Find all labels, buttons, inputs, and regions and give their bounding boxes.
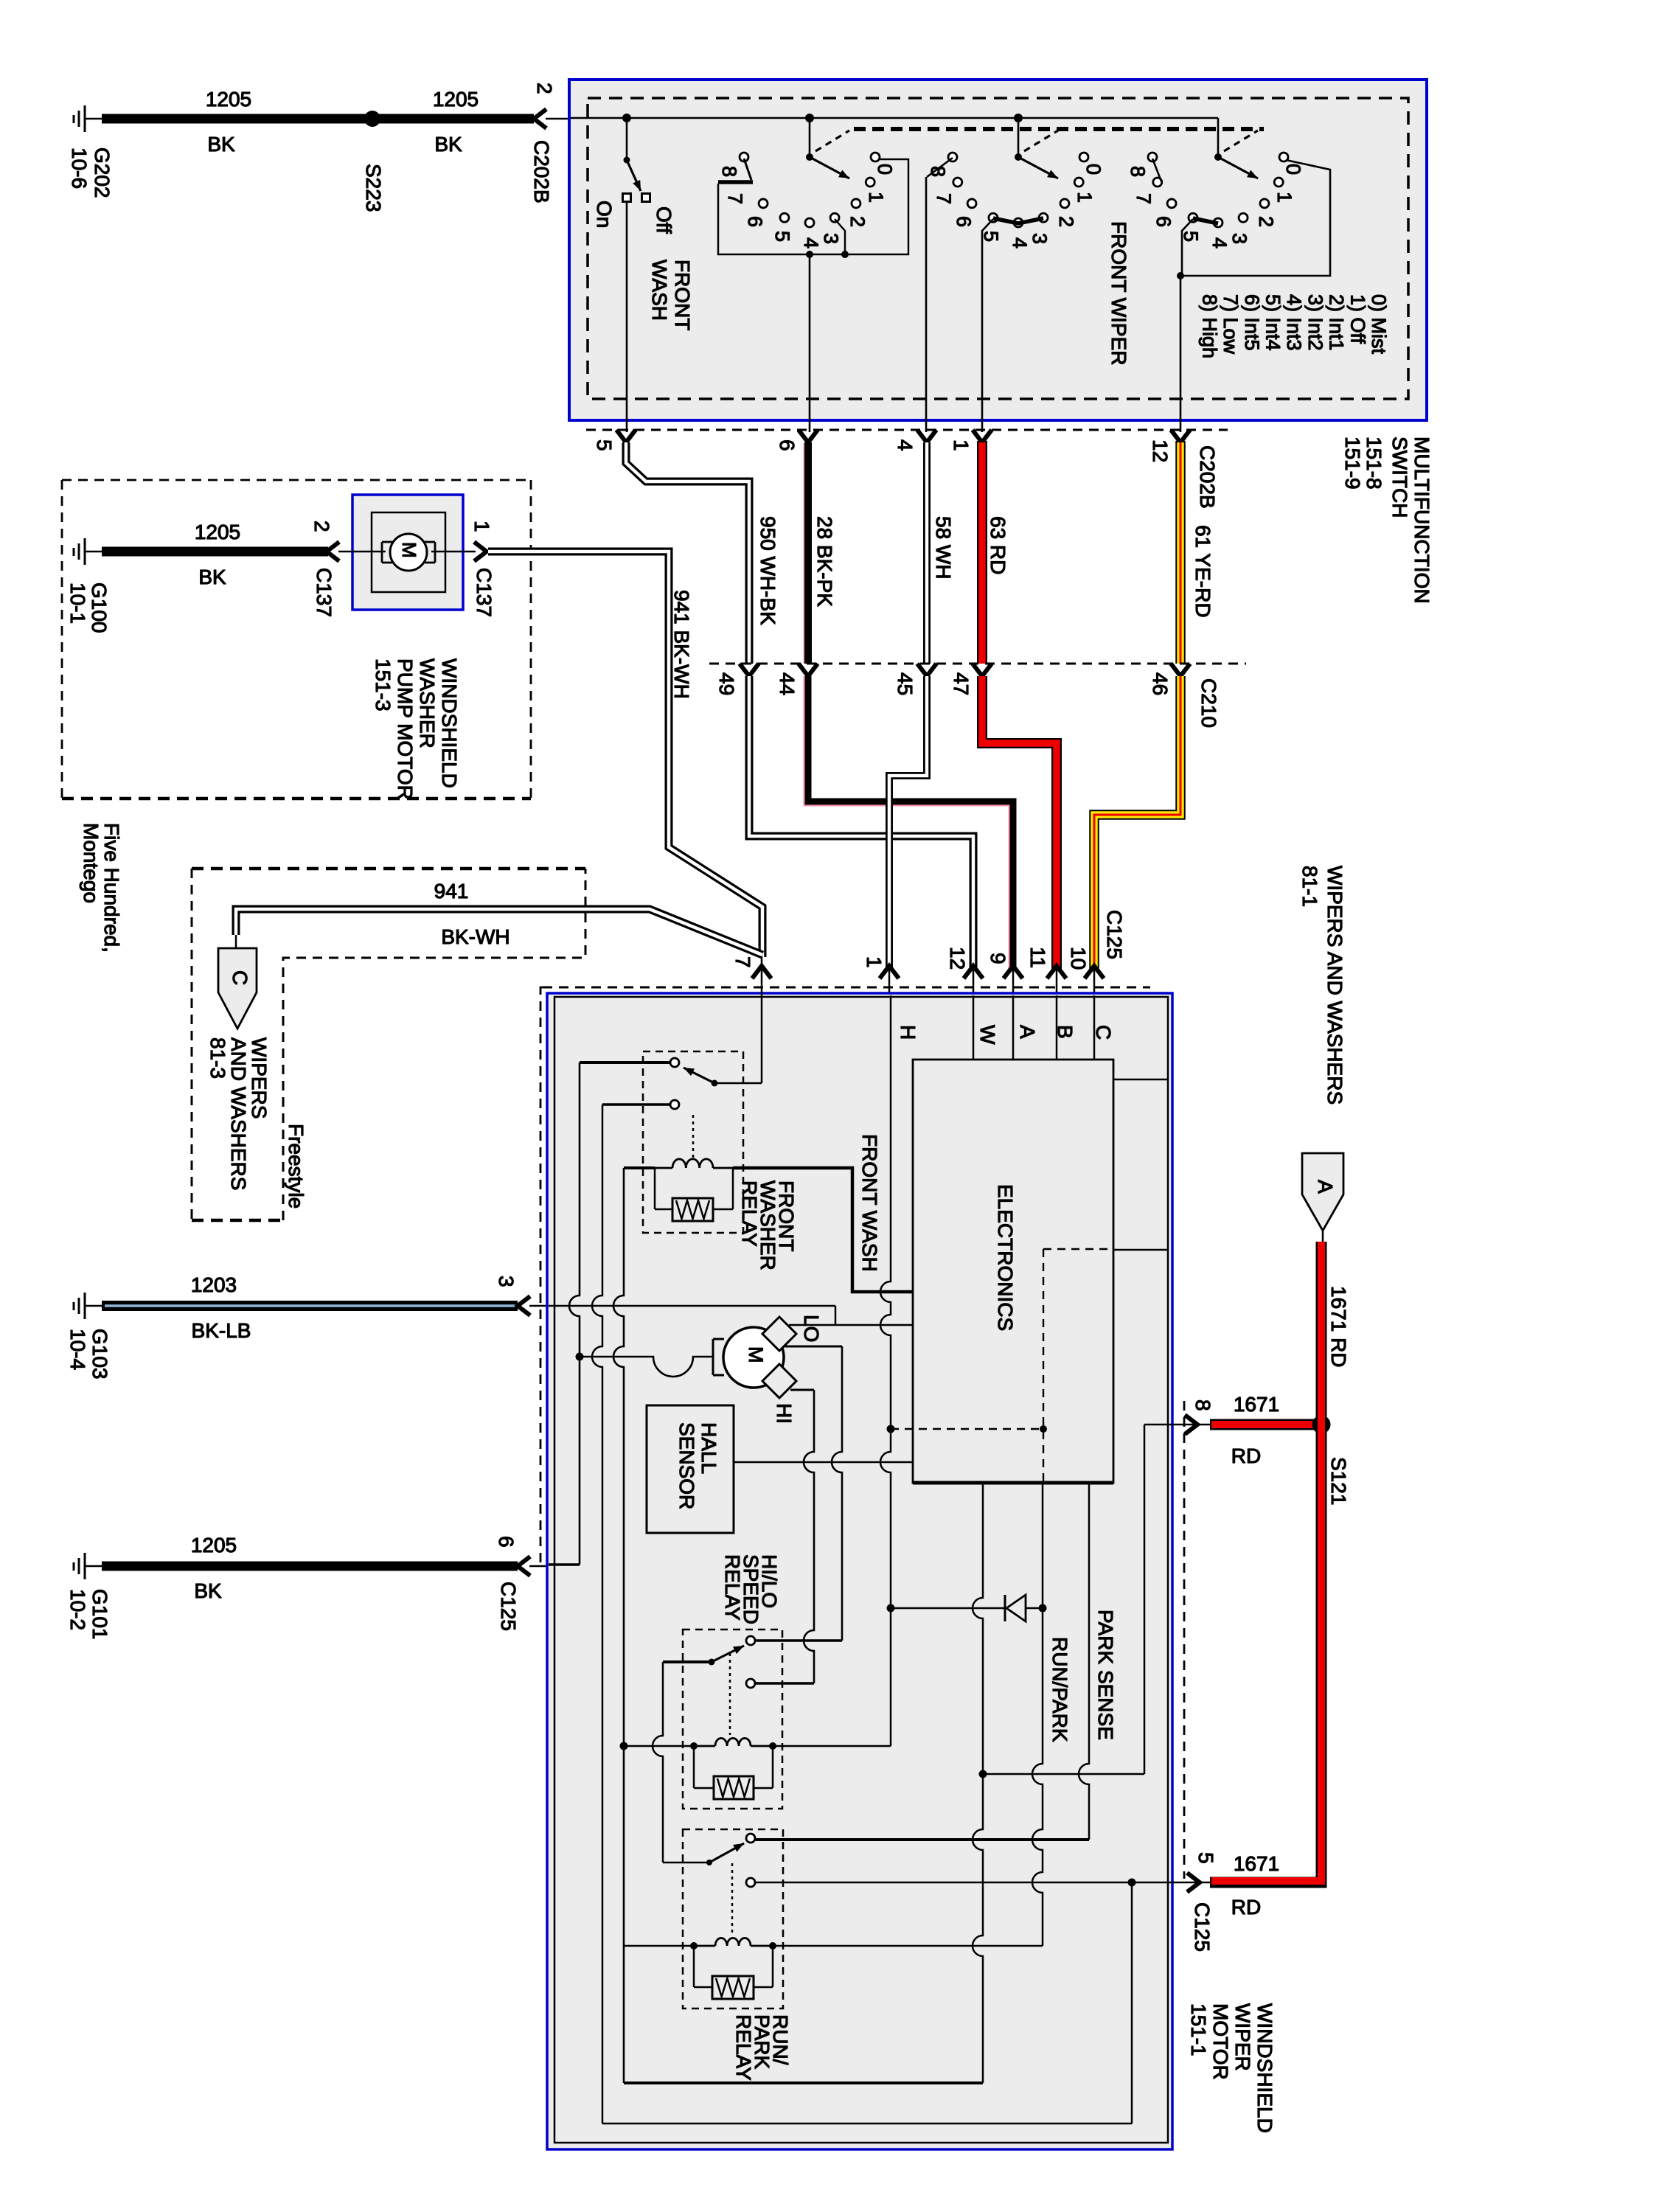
node dashed corner <box>1040 1425 1047 1433</box>
svg-text:BK: BK <box>434 133 462 156</box>
C210 pin 44 arrow <box>799 664 818 676</box>
wire 1671 RD main rail <box>1210 1242 1321 1882</box>
coil bus to relay-coil rail <box>624 1745 694 1747</box>
svg-text:8: 8 <box>1192 1399 1214 1411</box>
svg-text:SWITCH: SWITCH <box>1388 437 1411 518</box>
connector arrow C (to 81-3) <box>218 948 257 1029</box>
ground G103 <box>84 1293 86 1319</box>
svg-text:BK: BK <box>198 566 226 588</box>
svg-text:C202B: C202B <box>1196 445 1219 509</box>
svg-text:RD: RD <box>1231 1896 1261 1919</box>
svg-text:151-8: 151-8 <box>1363 437 1385 490</box>
RUN/PARK RELAY dashed box <box>683 1829 783 2008</box>
svg-text:C202B: C202B <box>530 140 553 204</box>
connector C202B pin 2 arrow <box>534 109 546 128</box>
wire 61 YE-RD C210 to C125 pin 10 <box>1094 676 1180 970</box>
C137 pin 2 arrow <box>327 542 339 561</box>
wafer A contact 7 bar <box>718 180 753 184</box>
svg-text:H: H <box>897 1025 919 1040</box>
washer relay resistor <box>672 1198 713 1221</box>
electronics right wire (C out) <box>1113 1079 1168 1081</box>
C125 pin 10 arrow <box>1085 966 1104 978</box>
wire wafer C to C202B pin 12 (61 YE-RD) <box>1180 276 1182 432</box>
svg-text:3: 3 <box>820 233 842 244</box>
svg-text:10: 10 <box>1067 947 1090 970</box>
wire 1205 BK to washer pump <box>102 547 328 557</box>
hi/lo relay contact NC (LO) <box>746 1679 755 1688</box>
svg-text:49: 49 <box>715 672 738 695</box>
svg-text:On: On <box>593 201 616 228</box>
svg-text:28 BK-PK: 28 BK-PK <box>813 516 836 607</box>
svg-text:SENSOR: SENSOR <box>675 1422 698 1509</box>
svg-text:5: 5 <box>771 231 793 242</box>
svg-text:6: 6 <box>1152 216 1175 227</box>
wire 28 BK-PK from pin 6 to C210 pin 44 <box>804 442 806 664</box>
svg-text:RELAY: RELAY <box>732 2014 755 2081</box>
svg-text:81-1: 81-1 <box>1298 866 1321 907</box>
svg-text:FRONT WASH: FRONT WASH <box>858 1134 881 1272</box>
washer relay coil <box>655 1167 672 1169</box>
washer pump inner box <box>372 512 445 592</box>
svg-text:8: 8 <box>718 166 740 177</box>
C210 pin 47 arrow <box>973 664 992 676</box>
run/park relay blade <box>709 1843 744 1863</box>
svg-text:MOTOR: MOTOR <box>1209 2003 1232 2080</box>
splice S121 <box>1312 1416 1331 1434</box>
run/park relay resistor <box>712 1976 754 1999</box>
wire C pin10 to electronics <box>1093 995 1096 1060</box>
svg-text:3: 3 <box>1029 233 1051 244</box>
svg-text:WASH: WASH <box>648 260 671 321</box>
FRONT WASH switch riser <box>626 118 628 160</box>
run/park relay common wire <box>662 1861 664 1863</box>
connector C125 dashed line (top) <box>543 987 1150 989</box>
motor HI terminal diamond <box>762 1364 796 1398</box>
svg-text:BK-WH: BK-WH <box>441 925 509 948</box>
svg-text:Five Hundred,: Five Hundred, <box>100 823 123 953</box>
bottom thick return y=2825 <box>624 2081 983 2084</box>
svg-text:PUMP MOTOR: PUMP MOTOR <box>394 658 417 800</box>
hi/lo relay contact NO (HI) <box>746 1636 755 1645</box>
svg-text:BK-LB: BK-LB <box>192 1319 251 1342</box>
hi/lo relay common wire <box>663 1660 712 1663</box>
svg-text:W: W <box>976 1025 999 1045</box>
electronics internal dashed partition <box>1043 1248 1113 1250</box>
svg-text:1205: 1205 <box>195 521 240 543</box>
svg-text:RD: RD <box>1231 1444 1261 1467</box>
svg-text:8) High: 8) High <box>1198 294 1220 358</box>
node: front wash branch <box>622 114 631 122</box>
wire motor to pin1 <box>431 551 476 553</box>
svg-text:2: 2 <box>1255 216 1277 227</box>
svg-text:C: C <box>229 970 251 985</box>
node diode to park rail <box>1039 1604 1047 1613</box>
wire B pin11 to electronics <box>1056 995 1058 1060</box>
svg-text:8: 8 <box>1127 166 1149 177</box>
switch feed bus from C202B pin2 <box>571 117 1218 119</box>
svg-text:58 WH: 58 WH <box>932 516 955 580</box>
wafer C contact 5 tail <box>1182 219 1193 276</box>
svg-text:RELAY: RELAY <box>721 1554 744 1621</box>
coil bus to H rail <box>773 1745 891 1747</box>
wiper wafer B pivot <box>1015 153 1022 161</box>
svg-text:6: 6 <box>953 216 975 227</box>
FRONT WASH contact Off <box>642 194 650 202</box>
svg-text:RELAY: RELAY <box>738 1180 761 1247</box>
wire coil left to relay-coil rail x=846 <box>624 1166 655 1169</box>
rail from electronics x=1333 <box>973 1483 983 2083</box>
wire 63 RD C210 to C125 pin 11 <box>982 676 1057 970</box>
C210 pin 45 arrow <box>917 664 936 676</box>
washer motor brushes <box>382 541 392 543</box>
svg-text:2: 2 <box>846 216 869 227</box>
node: wiper wafer A branch <box>805 114 814 122</box>
FRONT WASHER RELAY dashed box <box>643 1051 743 1233</box>
park rail x=1414 (dashed above) <box>1032 1483 1043 1946</box>
wafer A contact 8 link <box>744 159 751 180</box>
wiper wafer C blade <box>1218 157 1258 178</box>
connector C125 dashed boundary (right segment) <box>1183 1401 1186 1879</box>
svg-text:4: 4 <box>894 439 917 451</box>
svg-text:3) Int2: 3) Int2 <box>1304 294 1326 351</box>
svg-text:0) Mist: 0) Mist <box>1368 294 1390 354</box>
svg-text:G101: G101 <box>88 1589 111 1640</box>
wire On contact to C202B pin 5 <box>626 202 628 432</box>
wire H pin1 vertical rail <box>880 995 891 1746</box>
svg-text:2: 2 <box>310 521 333 532</box>
svg-text:6: 6 <box>495 1536 518 1548</box>
C210 pin 49 arrow <box>740 664 759 676</box>
svg-text:12: 12 <box>1149 439 1172 462</box>
svg-text:A: A <box>1314 1180 1337 1194</box>
node frame-contact3 <box>841 251 849 258</box>
electronics right wire (park out) <box>1113 1249 1168 1251</box>
C125 pin 7 arrow <box>752 966 771 978</box>
svg-text:0: 0 <box>874 164 896 175</box>
svg-text:FRONT WIPER: FRONT WIPER <box>1107 221 1130 365</box>
svg-text:C: C <box>1092 1025 1115 1040</box>
C137 pin 1 arrow <box>474 542 487 561</box>
ground G100 <box>84 538 86 565</box>
svg-text:151-1: 151-1 <box>1187 2003 1210 2056</box>
HI/LO SPEED RELAY dashed box <box>683 1630 782 1809</box>
diode wire <box>891 1607 1005 1610</box>
relay coil rail x=846 <box>613 1168 624 2083</box>
svg-text:10-1: 10-1 <box>66 582 89 624</box>
wire W pin12 to electronics <box>973 995 975 1060</box>
node pin5 to park return <box>1128 1879 1136 1887</box>
wire 1203 BK-LB to C125 pin 3 <box>102 1301 518 1311</box>
svg-text:4) Int3: 4) Int3 <box>1283 294 1305 351</box>
svg-text:1: 1 <box>1074 192 1096 203</box>
multifunction switch inner dashed border <box>588 98 1408 399</box>
wire link to C connector <box>235 935 237 948</box>
hi/lo relay blade <box>712 1646 744 1662</box>
svg-text:C125: C125 <box>1103 910 1126 959</box>
wire pin2 to motor <box>338 551 386 553</box>
svg-text:2: 2 <box>1055 216 1077 227</box>
hi/lo relay actuator dotted <box>729 1653 731 1735</box>
wiper motor brush bracket <box>712 1339 714 1375</box>
C125 pin 5 arrow <box>1187 1873 1200 1892</box>
svg-text:MULTIFUNCTION: MULTIFUNCTION <box>1411 437 1433 604</box>
C125 pin 8 arrow <box>1144 1424 1211 1426</box>
svg-text:HALL: HALL <box>698 1422 720 1474</box>
svg-text:4: 4 <box>1009 237 1031 248</box>
C202B pin 5 arrow <box>616 430 636 442</box>
svg-text:C137: C137 <box>473 568 495 617</box>
svg-text:5: 5 <box>1180 231 1202 242</box>
coil bus right to park rail x=1414 <box>773 1945 1043 1947</box>
svg-text:C137: C137 <box>313 568 335 617</box>
wiper wafer A contacts 0-8 <box>871 153 880 161</box>
svg-text:5: 5 <box>1194 1852 1217 1864</box>
svg-text:4: 4 <box>800 237 822 248</box>
svg-text:S121: S121 <box>1327 1457 1350 1505</box>
washer relay actuator dotted <box>692 1115 695 1161</box>
wiper wafer A pivot <box>806 153 813 161</box>
wire LO to electronics <box>789 1324 913 1326</box>
wiper wafer B riser <box>1018 118 1020 157</box>
svg-text:950 WH-BK: 950 WH-BK <box>757 516 779 625</box>
hi/lo relay coil <box>690 1742 698 1750</box>
wiper wafer B contacts <box>1079 153 1088 161</box>
FRONT WASH switch blade <box>627 160 641 191</box>
svg-text:G202: G202 <box>91 147 114 198</box>
C125 pin 9 arrow <box>1004 966 1023 978</box>
C125 pin 6 arrow <box>518 1557 530 1576</box>
Freestyle dashed box WIPERS AND WASHERS 81-3 <box>192 867 585 871</box>
svg-text:1: 1 <box>470 521 493 532</box>
svg-text:ELECTRONICS: ELECTRONICS <box>994 1184 1017 1331</box>
svg-text:941 BK-WH: 941 BK-WH <box>670 590 693 699</box>
rail x=1477 electronics to run/park NO <box>1079 1483 1089 1840</box>
svg-text:Montego: Montego <box>80 823 102 903</box>
wire relay NO contact to ground rail <box>580 1061 670 1064</box>
diode <box>1004 1595 1006 1621</box>
svg-text:WASHER: WASHER <box>416 658 439 748</box>
svg-text:5: 5 <box>980 231 1002 242</box>
FRONT WASH switch pivot <box>624 157 630 164</box>
wiper wafer C pivot <box>1214 153 1222 161</box>
svg-text:PARK SENSE: PARK SENSE <box>1094 1610 1117 1740</box>
svg-text:0: 0 <box>1282 164 1304 175</box>
wire 950 WH-BK from pin 5 to C210 pin 49 <box>626 442 749 664</box>
wire LO to hi/lo relay NC rail <box>784 1346 842 1348</box>
svg-text:Off: Off <box>653 206 675 234</box>
svg-text:1: 1 <box>863 956 886 968</box>
svg-text:M: M <box>398 542 420 558</box>
wire 941 BK-WH Freestyle branch <box>236 909 762 955</box>
svg-text:10-2: 10-2 <box>66 1589 89 1630</box>
wiper wafer C riser <box>1217 118 1220 157</box>
ground G202 <box>84 105 86 132</box>
svg-text:12: 12 <box>946 947 969 970</box>
svg-text:3: 3 <box>1228 233 1251 244</box>
svg-text:C125: C125 <box>1191 1902 1214 1952</box>
svg-text:6: 6 <box>776 439 799 451</box>
wire 1205 BK segment S223 to C202B pin 2 <box>378 114 534 124</box>
svg-text:7: 7 <box>933 193 955 204</box>
svg-text:11: 11 <box>1026 947 1049 968</box>
C202B pin 4 arrow <box>917 430 936 442</box>
HALL SENSOR box <box>647 1405 734 1533</box>
park return rail x=817 <box>592 1105 602 2124</box>
svg-text:WIPERS: WIPERS <box>248 1037 271 1119</box>
wafer C contact 8 stub <box>1152 159 1161 181</box>
svg-text:1205: 1205 <box>206 88 251 111</box>
svg-text:Freestyle: Freestyle <box>285 1124 307 1208</box>
svg-text:WINDSHIELD: WINDSHIELD <box>1253 2003 1276 2133</box>
wire 61 YE-RD from pin 12 to C210 pin 46 <box>1175 441 1186 664</box>
svg-text:LO: LO <box>800 1315 823 1342</box>
wiper motor box (blue) <box>547 993 1172 2149</box>
svg-text:2: 2 <box>533 83 556 94</box>
wiper wafer B blade <box>1018 157 1058 178</box>
wafer C position frame to contact 0 <box>1180 160 1330 276</box>
svg-text:1203: 1203 <box>191 1273 237 1296</box>
svg-text:5: 5 <box>593 439 616 451</box>
svg-text:47: 47 <box>950 672 973 695</box>
multifunction switch box (blue) <box>569 80 1427 420</box>
svg-text:1205: 1205 <box>191 1534 237 1557</box>
svg-text:WIPER: WIPER <box>1231 2003 1254 2071</box>
svg-text:151-9: 151-9 <box>1341 437 1364 490</box>
svg-text:7: 7 <box>724 193 746 204</box>
wire hall sensor to electronics <box>734 1461 913 1464</box>
svg-text:1: 1 <box>1273 192 1295 203</box>
svg-text:C125: C125 <box>497 1582 520 1631</box>
washer motor circle <box>390 534 427 571</box>
C125 pin 3 arrow <box>518 1296 530 1315</box>
svg-text:7: 7 <box>731 956 754 968</box>
ELECTRONICS box bottom edge thick <box>913 1481 1113 1485</box>
washer relay contact NC <box>670 1100 679 1109</box>
wiper wafer A mech link dashes <box>815 131 849 151</box>
svg-text:C210: C210 <box>1197 678 1220 728</box>
svg-text:S223: S223 <box>362 164 385 212</box>
wire 1205 BK to C125 pin 6 <box>102 1562 518 1571</box>
relay common rail to run/park relay <box>653 1662 663 1861</box>
svg-text:4: 4 <box>1208 237 1231 248</box>
wire motor brush to ground rail <box>580 1357 713 1377</box>
FRONT WASH contact On <box>623 194 631 202</box>
connector C125 dashed boundary (left segment) <box>540 987 543 1566</box>
wiper wafer A blade <box>810 157 849 178</box>
wafer B contact5 tail to RD wire <box>982 219 993 432</box>
svg-text:63 RD: 63 RD <box>987 516 1009 574</box>
wiper motor box inner border <box>554 997 1168 2143</box>
svg-text:1671 RD: 1671 RD <box>1327 1286 1350 1368</box>
wafer B contact 8 link to WH wire <box>927 158 953 177</box>
run/park relay contact NC <box>746 1878 755 1887</box>
svg-text:A: A <box>1016 1025 1039 1039</box>
svg-text:WINDSHIELD: WINDSHIELD <box>438 658 461 788</box>
svg-text:5) Int4: 5) Int4 <box>1262 294 1284 351</box>
svg-text:941: 941 <box>434 880 469 902</box>
washer relay blade <box>684 1068 714 1083</box>
connector C202B dashed line <box>586 429 1228 431</box>
svg-text:G103: G103 <box>88 1329 111 1380</box>
svg-text:1205: 1205 <box>433 88 479 111</box>
svg-text:7) Low: 7) Low <box>1220 294 1242 355</box>
svg-text:46: 46 <box>1149 672 1172 695</box>
svg-text:3: 3 <box>495 1276 518 1287</box>
node frame-pin6 <box>806 251 813 258</box>
wire relay NC contact to park return rail <box>602 1103 670 1106</box>
svg-text:1671: 1671 <box>1234 1852 1279 1875</box>
wire 63 RD from pin 1 to C210 pin 47 <box>977 441 987 664</box>
wafer A position frame <box>718 159 908 254</box>
wire run/park NO to electronics rail (thick) <box>755 1838 1089 1841</box>
svg-text:1671: 1671 <box>1234 1393 1279 1416</box>
wire FRONT WASH coil to electronics (thick) <box>733 1168 913 1292</box>
svg-text:WIPERS AND WASHERS: WIPERS AND WASHERS <box>1324 866 1346 1105</box>
wire 941 BK-WH from washer pump to C125 pin 7 <box>488 552 762 957</box>
node H / park-sense dashed tee <box>887 1425 895 1433</box>
hi/lo relay resistor <box>714 1776 754 1799</box>
wire 28 BK-PK C210 to C125 pin 9 <box>804 676 1009 970</box>
ground bus from C125 pin 3 <box>549 1305 835 1307</box>
pin8 feed rail x=1552 <box>1144 1425 1146 1774</box>
wiper wafer A riser <box>809 118 811 157</box>
svg-text:45: 45 <box>894 672 917 695</box>
wire 58 WH from pin 4 to C210 pin 45 <box>923 442 931 664</box>
park sense dashed link <box>891 1428 1043 1430</box>
wafer B bar contacts 3-4-5 <box>993 218 1043 223</box>
LO rail x=1142 <box>832 1346 842 1641</box>
ground rail (from C125 pin 6) <box>569 1062 580 1565</box>
svg-text:AND WASHERS: AND WASHERS <box>227 1037 250 1190</box>
svg-text:1: 1 <box>950 439 973 451</box>
svg-text:44: 44 <box>776 672 799 695</box>
wire y=2406 pin8 feed to x=1333 rail <box>983 1773 1144 1775</box>
svg-text:81-3: 81-3 <box>206 1037 229 1079</box>
ground G101 <box>84 1553 86 1579</box>
svg-text:FRONT: FRONT <box>671 260 694 330</box>
wafer C bar contacts 4-5 <box>1193 218 1218 223</box>
connector arrow A (from 81-?) <box>1302 1153 1343 1231</box>
svg-text:7: 7 <box>1133 193 1155 204</box>
svg-text:151-3: 151-3 <box>372 658 394 712</box>
motor LO terminal diamond <box>762 1317 796 1351</box>
HI rail x=1104 <box>804 1390 814 1680</box>
wire 1205 BK segment G202 to S223 <box>102 114 369 124</box>
node: wiper wafer B branch <box>1014 114 1023 122</box>
svg-text:RUN/PARK: RUN/PARK <box>1048 1637 1071 1742</box>
svg-text:M: M <box>745 1346 767 1363</box>
wiper wafer C mech link dashes <box>1224 131 1258 151</box>
C125 pin 1 arrow <box>880 966 899 978</box>
C202B pin 6 arrow <box>799 430 818 442</box>
coil bus left to rail x=846 <box>624 1945 694 1947</box>
run/park relay actuator dotted <box>731 1863 734 1936</box>
wire A pin9 to electronics <box>1012 995 1015 1060</box>
C202B pin 12 arrow <box>1171 430 1190 442</box>
wiper motor M <box>723 1327 784 1388</box>
svg-text:0: 0 <box>1082 164 1105 175</box>
node H / diode tee <box>887 1604 895 1613</box>
washer pump motor box (blue) <box>352 495 463 610</box>
svg-text:61 YE-RD: 61 YE-RD <box>1192 525 1214 618</box>
wire 950 WH-BK C210 to C125 pin 12 <box>749 676 973 970</box>
svg-text:HI: HI <box>773 1403 796 1424</box>
mechanical gang dashed line <box>854 127 1264 131</box>
ELECTRONICS box <box>913 1060 1113 1483</box>
svg-text:BK: BK <box>207 133 235 156</box>
wire 58 WH C210 to C125 pin 1 <box>889 676 927 970</box>
connector C210 dashed line <box>709 663 1246 665</box>
